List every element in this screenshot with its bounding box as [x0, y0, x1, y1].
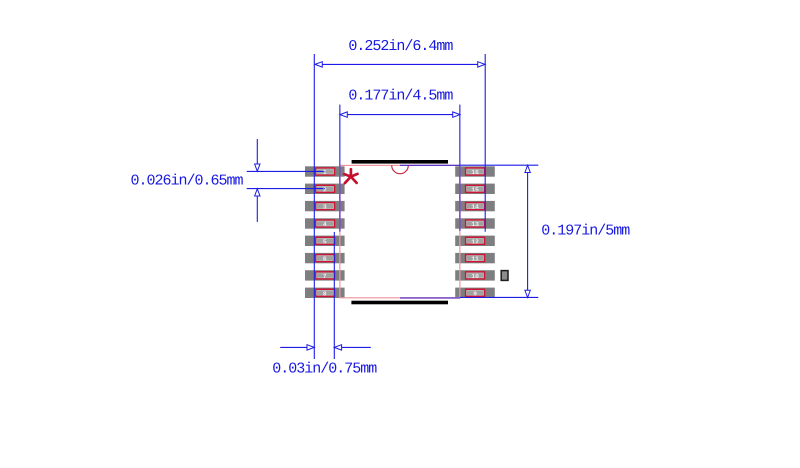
6.4mm left / right — [315, 62, 322, 67]
svg-text:12: 12 — [471, 238, 479, 245]
5mm dim vertical — [527, 165, 529, 297]
pin1 asterisk — [344, 169, 357, 183]
inner highlight borders on pins — [317, 169, 484, 295]
svg-text:0.177in/4.5mm: 0.177in/4.5mm — [348, 88, 453, 105]
pin numbers right 16-9 — [471, 169, 479, 297]
svg-text:0.197in/5mm: 0.197in/5mm — [541, 223, 630, 240]
svg-text:6: 6 — [323, 256, 327, 263]
svg-text:10: 10 — [471, 273, 479, 280]
right pads (gray lands) pins 16-9 — [455, 166, 495, 298]
bottom black bar — [351, 301, 448, 305]
0.65mm leader lines — [247, 170, 325, 172]
svg-text:16: 16 — [471, 169, 479, 176]
4.5mm left / right — [340, 112, 347, 117]
5mm up / down — [525, 165, 530, 172]
pin numbers left 1-8 — [323, 169, 327, 297]
purple overlap segments (blue over pink) — [340, 165, 460, 298]
svg-text:1: 1 — [323, 169, 327, 176]
4.5mm extension verticals upper blue parts — [339, 105, 341, 166]
svg-text:4: 4 — [323, 221, 327, 228]
svg-text:9: 9 — [473, 290, 477, 297]
0.75mm right / left pointing — [307, 345, 314, 350]
4.5mm dim line — [340, 114, 460, 116]
svg-text:8: 8 — [323, 290, 327, 297]
svg-text:0.03in/0.75mm: 0.03in/0.75mm — [272, 361, 377, 378]
svg-text:13: 13 — [471, 221, 479, 228]
red pin outlines right — [466, 168, 485, 296]
svg-text:7: 7 — [323, 273, 327, 280]
svg-text:15: 15 — [471, 186, 479, 193]
pin1 notch semicircle — [392, 165, 409, 173]
open arrowheads — [255, 62, 531, 350]
6.4mm extension verticals — [313, 54, 315, 359]
svg-text:2: 2 — [323, 186, 327, 193]
svg-text:14: 14 — [471, 204, 479, 211]
svg-text:0.026in/0.65mm: 0.026in/0.65mm — [131, 173, 244, 190]
0.75mm arrow lines — [280, 346, 307, 348]
svg-text:11: 11 — [471, 256, 479, 263]
svg-text:3: 3 — [323, 204, 327, 211]
red pin outlines left — [316, 168, 335, 296]
dimension texts — [131, 38, 631, 378]
5mm extension horizontals (blue parts) — [460, 164, 538, 166]
top black bar — [352, 160, 448, 164]
package body outline (pink) — [340, 165, 460, 297]
0.65mm down / up — [255, 164, 260, 171]
left pads (gray lands) pins 1-8 — [305, 166, 345, 298]
0.75mm extension vertical right — [333, 232, 335, 359]
6.4mm dim line — [315, 63, 485, 65]
svg-text:5: 5 — [323, 238, 327, 245]
svg-text:0.252in/6.4mm: 0.252in/6.4mm — [348, 38, 453, 55]
small dark rectangle near pin 10 — [501, 271, 508, 281]
